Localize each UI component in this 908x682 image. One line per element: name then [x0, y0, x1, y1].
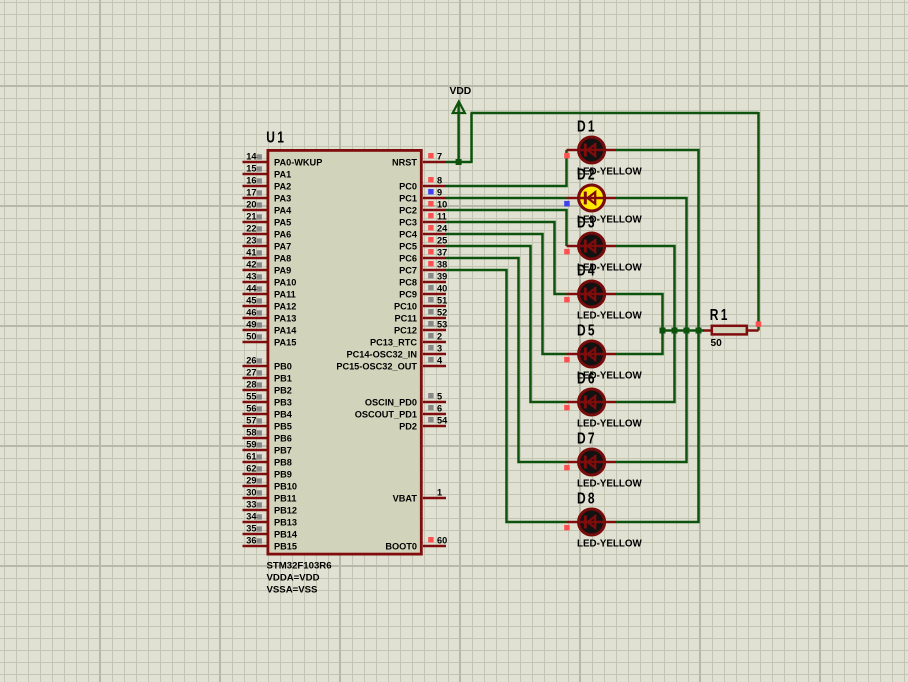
pin 9 PC1 stub [399, 188, 446, 204]
wire VDD top rail [471, 112, 759, 115]
pin 43 PA10 stub [243, 272, 297, 288]
svg-text:D3: D3 [577, 213, 597, 231]
svg-text:PA8: PA8 [274, 254, 291, 264]
pin 44 PA11 stub [243, 284, 296, 300]
svg-text:PD2: PD2 [399, 422, 417, 432]
svg-text:33: 33 [246, 500, 256, 510]
svg-text:8: 8 [437, 176, 442, 186]
pin 2 PC13_RTC stub [370, 332, 446, 348]
pin 23 PA7 stub [243, 236, 292, 252]
svg-text:PB12: PB12 [274, 506, 297, 516]
svg-text:PB5: PB5 [274, 422, 292, 432]
svg-text:PA1: PA1 [274, 170, 291, 180]
svg-text:PB11: PB11 [274, 494, 296, 504]
svg-text:PB9: PB9 [274, 470, 292, 480]
svg-text:58: 58 [246, 428, 256, 438]
pin 41 PA8 stub [243, 248, 292, 264]
svg-text:PB6: PB6 [274, 434, 292, 444]
pin 4 PC15-OSC32_OUT stub [336, 356, 446, 372]
pin 29 PB10 stub [243, 476, 297, 492]
svg-text:27: 27 [246, 368, 256, 378]
svg-text:PB1: PB1 [274, 374, 292, 384]
pin 28 PB2 stub [243, 380, 292, 396]
svg-text:PC7: PC7 [399, 266, 417, 276]
LED D6 [564, 389, 616, 415]
svg-text:PA11: PA11 [274, 290, 296, 300]
svg-text:PA2: PA2 [274, 182, 291, 192]
LED D2 [564, 185, 616, 211]
svg-text:24: 24 [437, 224, 448, 234]
svg-text:NRST: NRST [392, 158, 417, 168]
svg-text:LED-YELLOW: LED-YELLOW [577, 310, 643, 321]
svg-text:25: 25 [437, 236, 447, 246]
svg-text:PB2: PB2 [274, 386, 292, 396]
pin 17 PA3 stub [243, 188, 292, 204]
wire PC1 pin9 to D2 [446, 197, 567, 200]
pin 51 PC10 stub [394, 296, 447, 312]
svg-text:5: 5 [437, 392, 442, 402]
svg-text:2: 2 [437, 332, 442, 342]
wire PC4 pin24 to D5 [446, 234, 567, 354]
svg-text:D4: D4 [577, 261, 597, 279]
svg-text:15: 15 [246, 164, 256, 174]
svg-text:D8: D8 [577, 489, 597, 507]
svg-text:39: 39 [437, 272, 447, 282]
pin 34 PB13 stub [243, 512, 297, 528]
pin 56 PB4 stub [243, 404, 293, 420]
pin 62 PB9 stub [243, 464, 292, 480]
svg-text:10: 10 [437, 200, 447, 210]
pin 6 OSCOUT_PD1 stub [355, 404, 446, 420]
svg-text:D2: D2 [577, 165, 597, 183]
svg-text:43: 43 [246, 272, 256, 282]
svg-text:PB8: PB8 [274, 458, 292, 468]
svg-text:21: 21 [246, 212, 256, 222]
svg-text:PB7: PB7 [274, 446, 292, 456]
wire PC0 pin8 to D1 [446, 150, 567, 186]
svg-text:36: 36 [246, 536, 256, 546]
svg-text:PC2: PC2 [399, 206, 417, 216]
svg-text:D5: D5 [577, 321, 597, 339]
pin 50 PA15 stub [243, 332, 297, 348]
svg-text:59: 59 [246, 440, 256, 450]
svg-text:LED-YELLOW: LED-YELLOW [577, 418, 643, 429]
svg-text:STM32F103R6: STM32F103R6 [267, 561, 332, 572]
pin 10 PC2 stub [399, 200, 447, 216]
svg-text:40: 40 [437, 284, 447, 294]
svg-text:PC13_RTC: PC13_RTC [370, 338, 417, 348]
pin 52 PC11 stub [395, 308, 448, 324]
junction dot on cathode bus x=674.5 [672, 328, 678, 334]
svg-text:PA9: PA9 [274, 266, 291, 276]
pin 11 PC3 stub [399, 212, 447, 228]
svg-text:PB0: PB0 [274, 362, 292, 372]
svg-text:9: 9 [437, 188, 442, 198]
svg-text:OSCIN_PD0: OSCIN_PD0 [365, 398, 417, 408]
svg-text:PA7: PA7 [274, 242, 291, 252]
wire PC3 pin11 to D4 [446, 222, 567, 294]
svg-text:55: 55 [246, 392, 256, 402]
pin 40 PC9 stub [399, 284, 447, 300]
svg-text:1: 1 [437, 488, 442, 498]
wire pin7 NRST to VDD rail [446, 161, 472, 164]
svg-text:7: 7 [437, 152, 442, 162]
junction dot on cathode bus x=698.5 [696, 328, 702, 334]
svg-text:20: 20 [246, 200, 256, 210]
wire PC5 pin25 to D6 [446, 246, 567, 402]
svg-text:U1: U1 [266, 128, 286, 146]
svg-text:PC0: PC0 [399, 182, 417, 192]
pin 55 PB3 stub [243, 392, 292, 408]
svg-text:57: 57 [246, 416, 256, 426]
LED D1 [564, 137, 616, 163]
svg-text:LED-YELLOW: LED-YELLOW [577, 478, 643, 489]
junction dot on cathode bus x=662.5 [660, 328, 666, 334]
svg-text:4: 4 [437, 356, 443, 366]
pin 26 PB0 stub [243, 356, 292, 372]
svg-text:29: 29 [246, 476, 256, 486]
svg-text:PA13: PA13 [274, 314, 296, 324]
svg-text:35: 35 [246, 524, 256, 534]
svg-text:PC11: PC11 [395, 314, 417, 324]
svg-text:45: 45 [246, 296, 256, 306]
LED D5 [564, 341, 616, 367]
pin 45 PA12 stub [243, 296, 297, 312]
svg-text:PB13: PB13 [274, 518, 297, 528]
pin 57 PB5 stub [243, 416, 292, 432]
junction dot at VDD stem [456, 159, 462, 165]
svg-text:53: 53 [437, 320, 447, 330]
pin 53 PC12 stub [394, 320, 447, 336]
pin 59 PB7 stub [243, 440, 292, 456]
svg-text:34: 34 [246, 512, 257, 522]
pin 21 PA5 stub [243, 212, 292, 228]
svg-text:LED-YELLOW: LED-YELLOW [577, 538, 643, 549]
svg-text:51: 51 [437, 296, 447, 306]
pin 5 OSCIN_PD0 stub [365, 392, 446, 408]
wire D2 cathode to bus [616, 198, 687, 462]
svg-text:PA0-WKUP: PA0-WKUP [274, 158, 322, 168]
wire VDD symbol stem [457, 104, 460, 162]
resistor R1 lead left [703, 329, 712, 332]
svg-text:3: 3 [437, 344, 442, 354]
svg-text:41: 41 [246, 248, 256, 258]
svg-text:PC5: PC5 [399, 242, 417, 252]
svg-text:54: 54 [437, 416, 448, 426]
svg-text:VSSA=VSS: VSSA=VSS [267, 585, 319, 596]
svg-text:PA15: PA15 [274, 338, 296, 348]
state square at R1 right terminal [756, 321, 762, 327]
svg-text:PB10: PB10 [274, 482, 297, 492]
pin 15 PA1 stub [243, 164, 292, 180]
svg-text:PB3: PB3 [274, 398, 292, 408]
svg-text:PB14: PB14 [274, 530, 298, 540]
LED D3 [564, 233, 616, 259]
svg-text:22: 22 [246, 224, 256, 234]
svg-text:PC10: PC10 [394, 302, 417, 312]
wire PC7 pin38 to D8 [446, 270, 567, 522]
pin 22 PA6 stub [243, 224, 292, 240]
svg-text:OSCOUT_PD1: OSCOUT_PD1 [355, 410, 417, 420]
svg-text:60: 60 [437, 536, 447, 546]
power symbol VDD arrow [453, 102, 465, 114]
pin 38 PC7 stub [399, 260, 447, 276]
svg-text:PA10: PA10 [274, 278, 296, 288]
svg-text:17: 17 [246, 188, 256, 198]
pin 60 BOOT0 stub [385, 536, 447, 552]
svg-text:PC12: PC12 [394, 326, 417, 336]
svg-text:PA5: PA5 [274, 218, 291, 228]
svg-text:D6: D6 [577, 369, 597, 387]
svg-text:PC8: PC8 [399, 278, 417, 288]
junction dot on cathode bus x=686.5 [684, 328, 690, 334]
pin 8 PC0 stub [399, 176, 446, 192]
wire cathode bus to R1 [663, 329, 705, 332]
pin 27 PB1 stub [243, 368, 292, 384]
svg-text:61: 61 [246, 452, 256, 462]
svg-text:30: 30 [246, 488, 256, 498]
svg-text:D7: D7 [577, 429, 597, 447]
pin 46 PA13 stub [243, 308, 297, 324]
LED D8 [564, 509, 616, 535]
svg-text:52: 52 [437, 308, 447, 318]
svg-text:PA12: PA12 [274, 302, 296, 312]
svg-text:PB4: PB4 [274, 410, 293, 420]
svg-text:28: 28 [246, 380, 256, 390]
svg-text:VDDA=VDD: VDDA=VDD [267, 573, 320, 584]
wire VDD rail riser [470, 113, 473, 163]
LED D4 [564, 281, 616, 307]
pin 33 PB12 stub [243, 500, 297, 516]
svg-text:D1: D1 [577, 117, 597, 135]
svg-text:50: 50 [246, 332, 256, 342]
wire D1 cathode to bus [616, 150, 699, 522]
pin 7 NRST stub [392, 152, 446, 168]
pin 16 PA2 stub [243, 176, 292, 192]
svg-text:PA4: PA4 [274, 206, 292, 216]
resistor R1 lead right [747, 329, 759, 332]
wire PC2 pin10 to D3 [446, 210, 567, 246]
svg-text:PC3: PC3 [399, 218, 417, 228]
pin 42 PA9 stub [243, 260, 292, 276]
svg-text:46: 46 [246, 308, 256, 318]
pin 37 PC6 stub [399, 248, 447, 264]
svg-text:14: 14 [246, 152, 257, 162]
pin 14 PA0-WKUP stub [243, 152, 323, 168]
svg-text:BOOT0: BOOT0 [385, 542, 417, 552]
svg-text:PC6: PC6 [399, 254, 417, 264]
microcontroller U1 body [268, 150, 421, 554]
resistor R1 body [712, 326, 747, 335]
svg-text:PA3: PA3 [274, 194, 291, 204]
svg-text:23: 23 [246, 236, 256, 246]
LED D7 [564, 449, 616, 475]
pin 36 PB15 stub [243, 536, 297, 552]
svg-text:PC9: PC9 [399, 290, 417, 300]
svg-text:49: 49 [246, 320, 256, 330]
svg-text:R1: R1 [710, 305, 730, 323]
pin 20 PA4 stub [243, 200, 293, 216]
svg-text:62: 62 [246, 464, 256, 474]
pin 58 PB6 stub [243, 428, 292, 444]
svg-text:26: 26 [246, 356, 256, 366]
svg-text:PC14-OSC32_IN: PC14-OSC32_IN [347, 350, 418, 360]
pin 3 PC14-OSC32_IN stub [347, 344, 446, 360]
svg-text:16: 16 [246, 176, 256, 186]
wire PC6 pin37 to D7 [446, 258, 567, 462]
svg-text:PC4: PC4 [399, 230, 418, 240]
svg-text:44: 44 [246, 284, 257, 294]
pin 54 PD2 stub [399, 416, 448, 432]
svg-text:50: 50 [711, 338, 723, 349]
svg-text:VBAT: VBAT [393, 494, 418, 504]
svg-text:PB15: PB15 [274, 542, 297, 552]
svg-text:56: 56 [246, 404, 256, 414]
wire right rail down to R1 [757, 112, 760, 331]
svg-text:PC1: PC1 [399, 194, 417, 204]
svg-text:PC15-OSC32_OUT: PC15-OSC32_OUT [336, 362, 417, 372]
svg-text:VDD: VDD [450, 86, 472, 97]
pin 35 PB14 stub [243, 524, 298, 540]
svg-text:PA14: PA14 [274, 326, 297, 336]
wire D3 cathode to bus [616, 246, 675, 402]
svg-text:11: 11 [437, 212, 447, 222]
svg-text:38: 38 [437, 260, 447, 270]
svg-text:42: 42 [246, 260, 256, 270]
svg-text:37: 37 [437, 248, 447, 258]
wire D4 cathode to bus [616, 294, 663, 354]
pin 30 PB11 stub [243, 488, 297, 504]
svg-text:PA6: PA6 [274, 230, 291, 240]
svg-text:6: 6 [437, 404, 442, 414]
pin 39 PC8 stub [399, 272, 447, 288]
pin 1 VBAT stub [393, 488, 446, 504]
pin 25 PC5 stub [399, 236, 447, 252]
pin 24 PC4 stub [399, 224, 448, 240]
pin 61 PB8 stub [243, 452, 292, 468]
pin 49 PA14 stub [243, 320, 298, 336]
